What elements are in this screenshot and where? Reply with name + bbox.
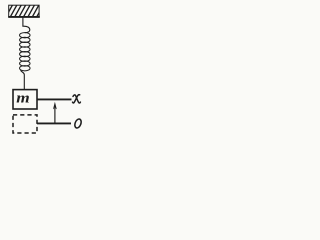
label x xyxy=(73,95,81,103)
ceiling support (hatched block) xyxy=(5,4,44,19)
spring coil (8 loops) xyxy=(20,33,31,71)
label 0 xyxy=(74,118,83,129)
x axis line xyxy=(37,98,72,100)
displacement arrow (up) xyxy=(53,102,57,123)
wire: rod from ceiling into spring xyxy=(23,17,30,33)
wire: rod from spring to mass xyxy=(21,70,25,89)
zero line xyxy=(37,122,71,124)
dashed box (equilibrium position) xyxy=(13,115,37,133)
mass block xyxy=(13,90,37,109)
svg-text:m: m xyxy=(16,91,29,106)
